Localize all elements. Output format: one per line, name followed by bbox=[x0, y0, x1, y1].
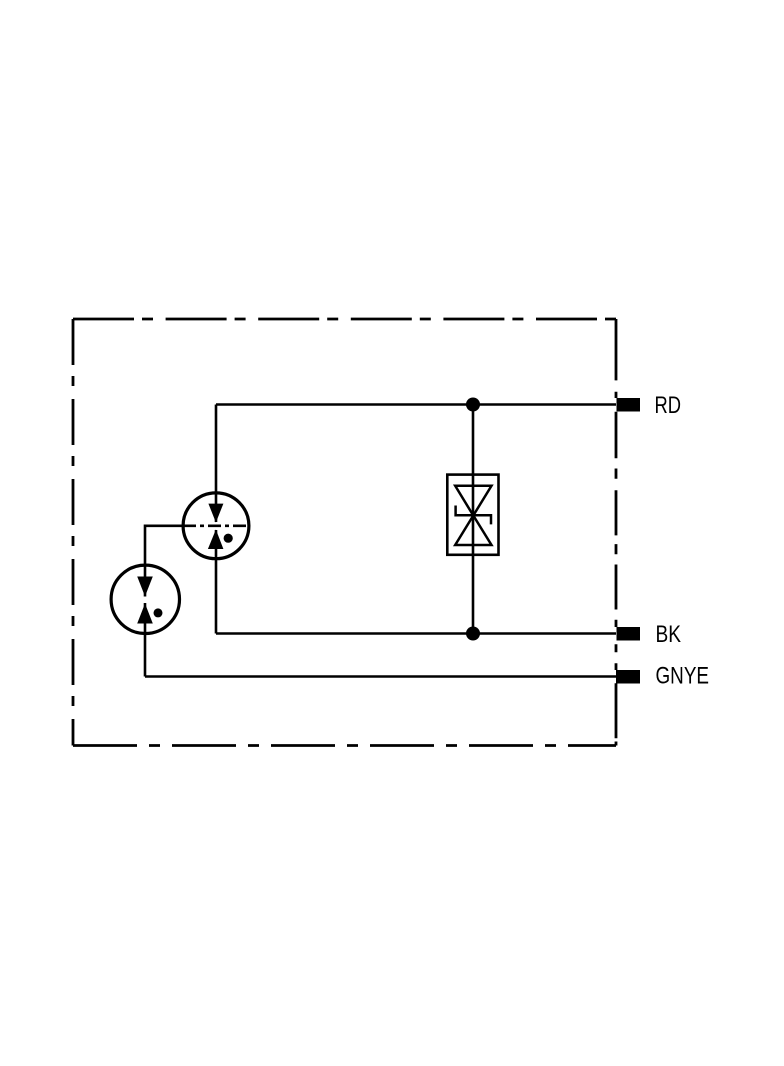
junction dot BK/TVS bbox=[466, 627, 480, 641]
terminal RD bbox=[617, 398, 641, 412]
enclosure border top (dash-dot) bbox=[73, 318, 616, 321]
wire: TVS branch vertical bbox=[472, 405, 475, 634]
TVS suppressor diode F1 bbox=[447, 475, 498, 555]
enclosure border right (dash-dot) bbox=[615, 319, 618, 746]
enclosure border left (dash-dot) bbox=[72, 319, 75, 746]
gas discharge tube G2 bbox=[111, 565, 179, 633]
svg-text:BK: BK bbox=[656, 621, 682, 648]
wire: RD net down to gas discharge tube G1 bbox=[215, 405, 218, 523]
gas discharge tube G1 bbox=[183, 493, 249, 559]
enclosure border bottom (dash-dot) bbox=[73, 744, 616, 747]
junction dot RD/TVS bbox=[466, 398, 480, 412]
terminal GNYE bbox=[616, 670, 640, 684]
svg-text:GNYE: GNYE bbox=[656, 663, 710, 690]
wire GNYE net (horizontal) bbox=[145, 675, 616, 678]
terminal BK bbox=[617, 627, 641, 641]
svg-text:RD: RD bbox=[655, 392, 682, 419]
wire: G1 left to G2 branch bbox=[145, 526, 184, 597]
wire RD net (horizontal) bbox=[216, 403, 616, 406]
wire BK net (horizontal) bbox=[216, 632, 616, 635]
wire: G1 down to BK net bbox=[215, 530, 218, 634]
wire: G2 down to GNYE net bbox=[144, 603, 147, 677]
